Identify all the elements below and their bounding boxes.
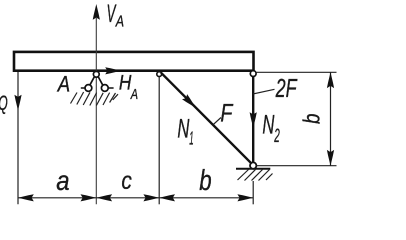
bottom dimension line <box>18 197 253 199</box>
pin support at A : left roller <box>85 85 92 92</box>
svg-text:N: N <box>177 113 189 143</box>
beam (rigid bar) <box>14 52 254 71</box>
svg-text:2: 2 <box>274 126 280 147</box>
svg-text:F: F <box>220 99 233 127</box>
force arrow on N1 <box>182 94 198 110</box>
member N1 (diagonal rod) <box>161 73 253 165</box>
bottom support hinge circle <box>250 162 256 168</box>
force V_A arrow <box>93 4 100 20</box>
pin N1 top hinge <box>157 72 162 77</box>
svg-text:A: A <box>115 14 124 31</box>
pin support at A : left ground tick <box>81 87 85 89</box>
pin N2 top hinge <box>250 71 256 77</box>
svg-text:Q: Q <box>0 92 8 115</box>
bottom support ground line <box>236 168 270 170</box>
wire extension line at x=18 (Q line) <box>17 71 19 204</box>
member N2 (vertical rod) <box>252 77 254 163</box>
pin support at A : hinge circle <box>93 71 99 77</box>
dim arrows at x=159.2 <box>159 194 175 201</box>
dim arrows at x=96.3 <box>96 194 112 201</box>
force Q arrow <box>14 95 21 111</box>
force arrow on N2 <box>250 112 257 128</box>
leader line to 2F <box>253 89 275 94</box>
svg-text:a: a <box>56 165 69 196</box>
pin support at A : right roller <box>101 85 108 92</box>
dim arrow at x=18 pointing left <box>18 194 34 201</box>
dimension b right : up arrow <box>327 72 334 88</box>
svg-text:b: b <box>199 165 211 197</box>
leader line to F <box>214 118 222 125</box>
wire extension line at x=253 below support <box>252 181 254 204</box>
pin support at A : left leg <box>90 77 95 86</box>
pin support at A : right leg <box>98 77 103 86</box>
force H_A arrowhead on beam bottom <box>105 67 121 74</box>
dim arrow at x=253.2 pointing right <box>237 194 253 201</box>
svg-text:b: b <box>299 113 325 124</box>
svg-text:c: c <box>121 167 132 195</box>
hatching under support A <box>71 92 119 106</box>
pin support at A : right ground tick <box>108 87 113 89</box>
hatching under bottom support <box>238 170 273 181</box>
svg-text:2F: 2F <box>275 73 298 103</box>
svg-text:A: A <box>130 86 138 103</box>
dimension b right : top extension line <box>257 71 337 73</box>
svg-text:1: 1 <box>189 128 193 149</box>
dimension b right : dimension line <box>330 72 332 165</box>
svg-text:N: N <box>262 109 274 139</box>
dimension b right : bottom extension line <box>257 165 337 167</box>
wire extension line at x=159 <box>158 77 160 205</box>
node axis center line through A <box>95 17 97 204</box>
svg-text:A: A <box>56 72 70 97</box>
dimension b right : down arrow <box>327 150 334 166</box>
